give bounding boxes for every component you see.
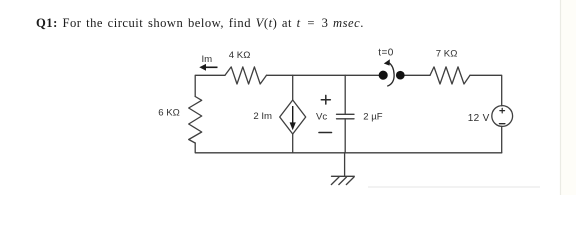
wire top-right corner	[470, 75, 502, 105]
wire capacitor bottom	[344, 119, 346, 153]
svg-text:Im: Im	[202, 54, 213, 65]
capacitor plus sign	[321, 95, 330, 104]
wire source to bottom rail	[501, 126, 503, 152]
voltage source polarity plus	[500, 108, 505, 113]
switch contact dot left	[379, 71, 388, 80]
svg-text:4 KΩ: 4 KΩ	[229, 50, 251, 61]
svg-text:t=0: t=0	[378, 48, 393, 59]
svg-text:7 KΩ: 7 KΩ	[436, 49, 458, 60]
resistor R1 4 KΩ	[225, 67, 267, 84]
capacitor C1 plate top	[337, 113, 355, 115]
wire switch to 7k	[400, 74, 430, 76]
svg-text:6 KΩ: 6 KΩ	[158, 108, 180, 119]
wire top rail middle	[267, 74, 384, 76]
resistor R3 7 KΩ	[430, 67, 470, 84]
resistor R2 6 KΩ	[189, 97, 202, 144]
wire ground stub	[344, 153, 346, 177]
wire dependent source bottom	[292, 134, 294, 153]
wire top-left corner	[195, 75, 225, 96]
switch SW1	[379, 59, 405, 86]
switch opening arc	[387, 63, 394, 87]
svg-text:2 µF: 2 µF	[363, 111, 382, 122]
ground	[331, 176, 354, 184]
capacitor C1 plate bottom	[337, 118, 355, 120]
wire dependent source top	[292, 75, 294, 100]
current arrow Im	[199, 64, 217, 71]
wire capacitor top	[344, 75, 346, 114]
voltage source polarity minus	[499, 123, 505, 125]
switch contact dot right	[396, 71, 405, 80]
faint bottom-right line	[368, 186, 540, 188]
svg-text:Vc: Vc	[316, 112, 327, 123]
wire bottom rail	[293, 152, 502, 154]
capacitor minus sign	[319, 132, 332, 134]
faint right margin tint	[561, 0, 576, 195]
switch arc arrowhead	[384, 59, 390, 65]
wire left bottom	[195, 143, 293, 153]
dependent source arrow	[290, 106, 296, 130]
voltage source V1 circle	[492, 106, 513, 127]
svg-text:12 V: 12 V	[468, 113, 490, 124]
faint right edge line	[560, 0, 562, 195]
title text	[36, 16, 364, 31]
dependent current source U1 diamond	[280, 100, 306, 134]
svg-text:2 Im: 2 Im	[253, 111, 272, 122]
